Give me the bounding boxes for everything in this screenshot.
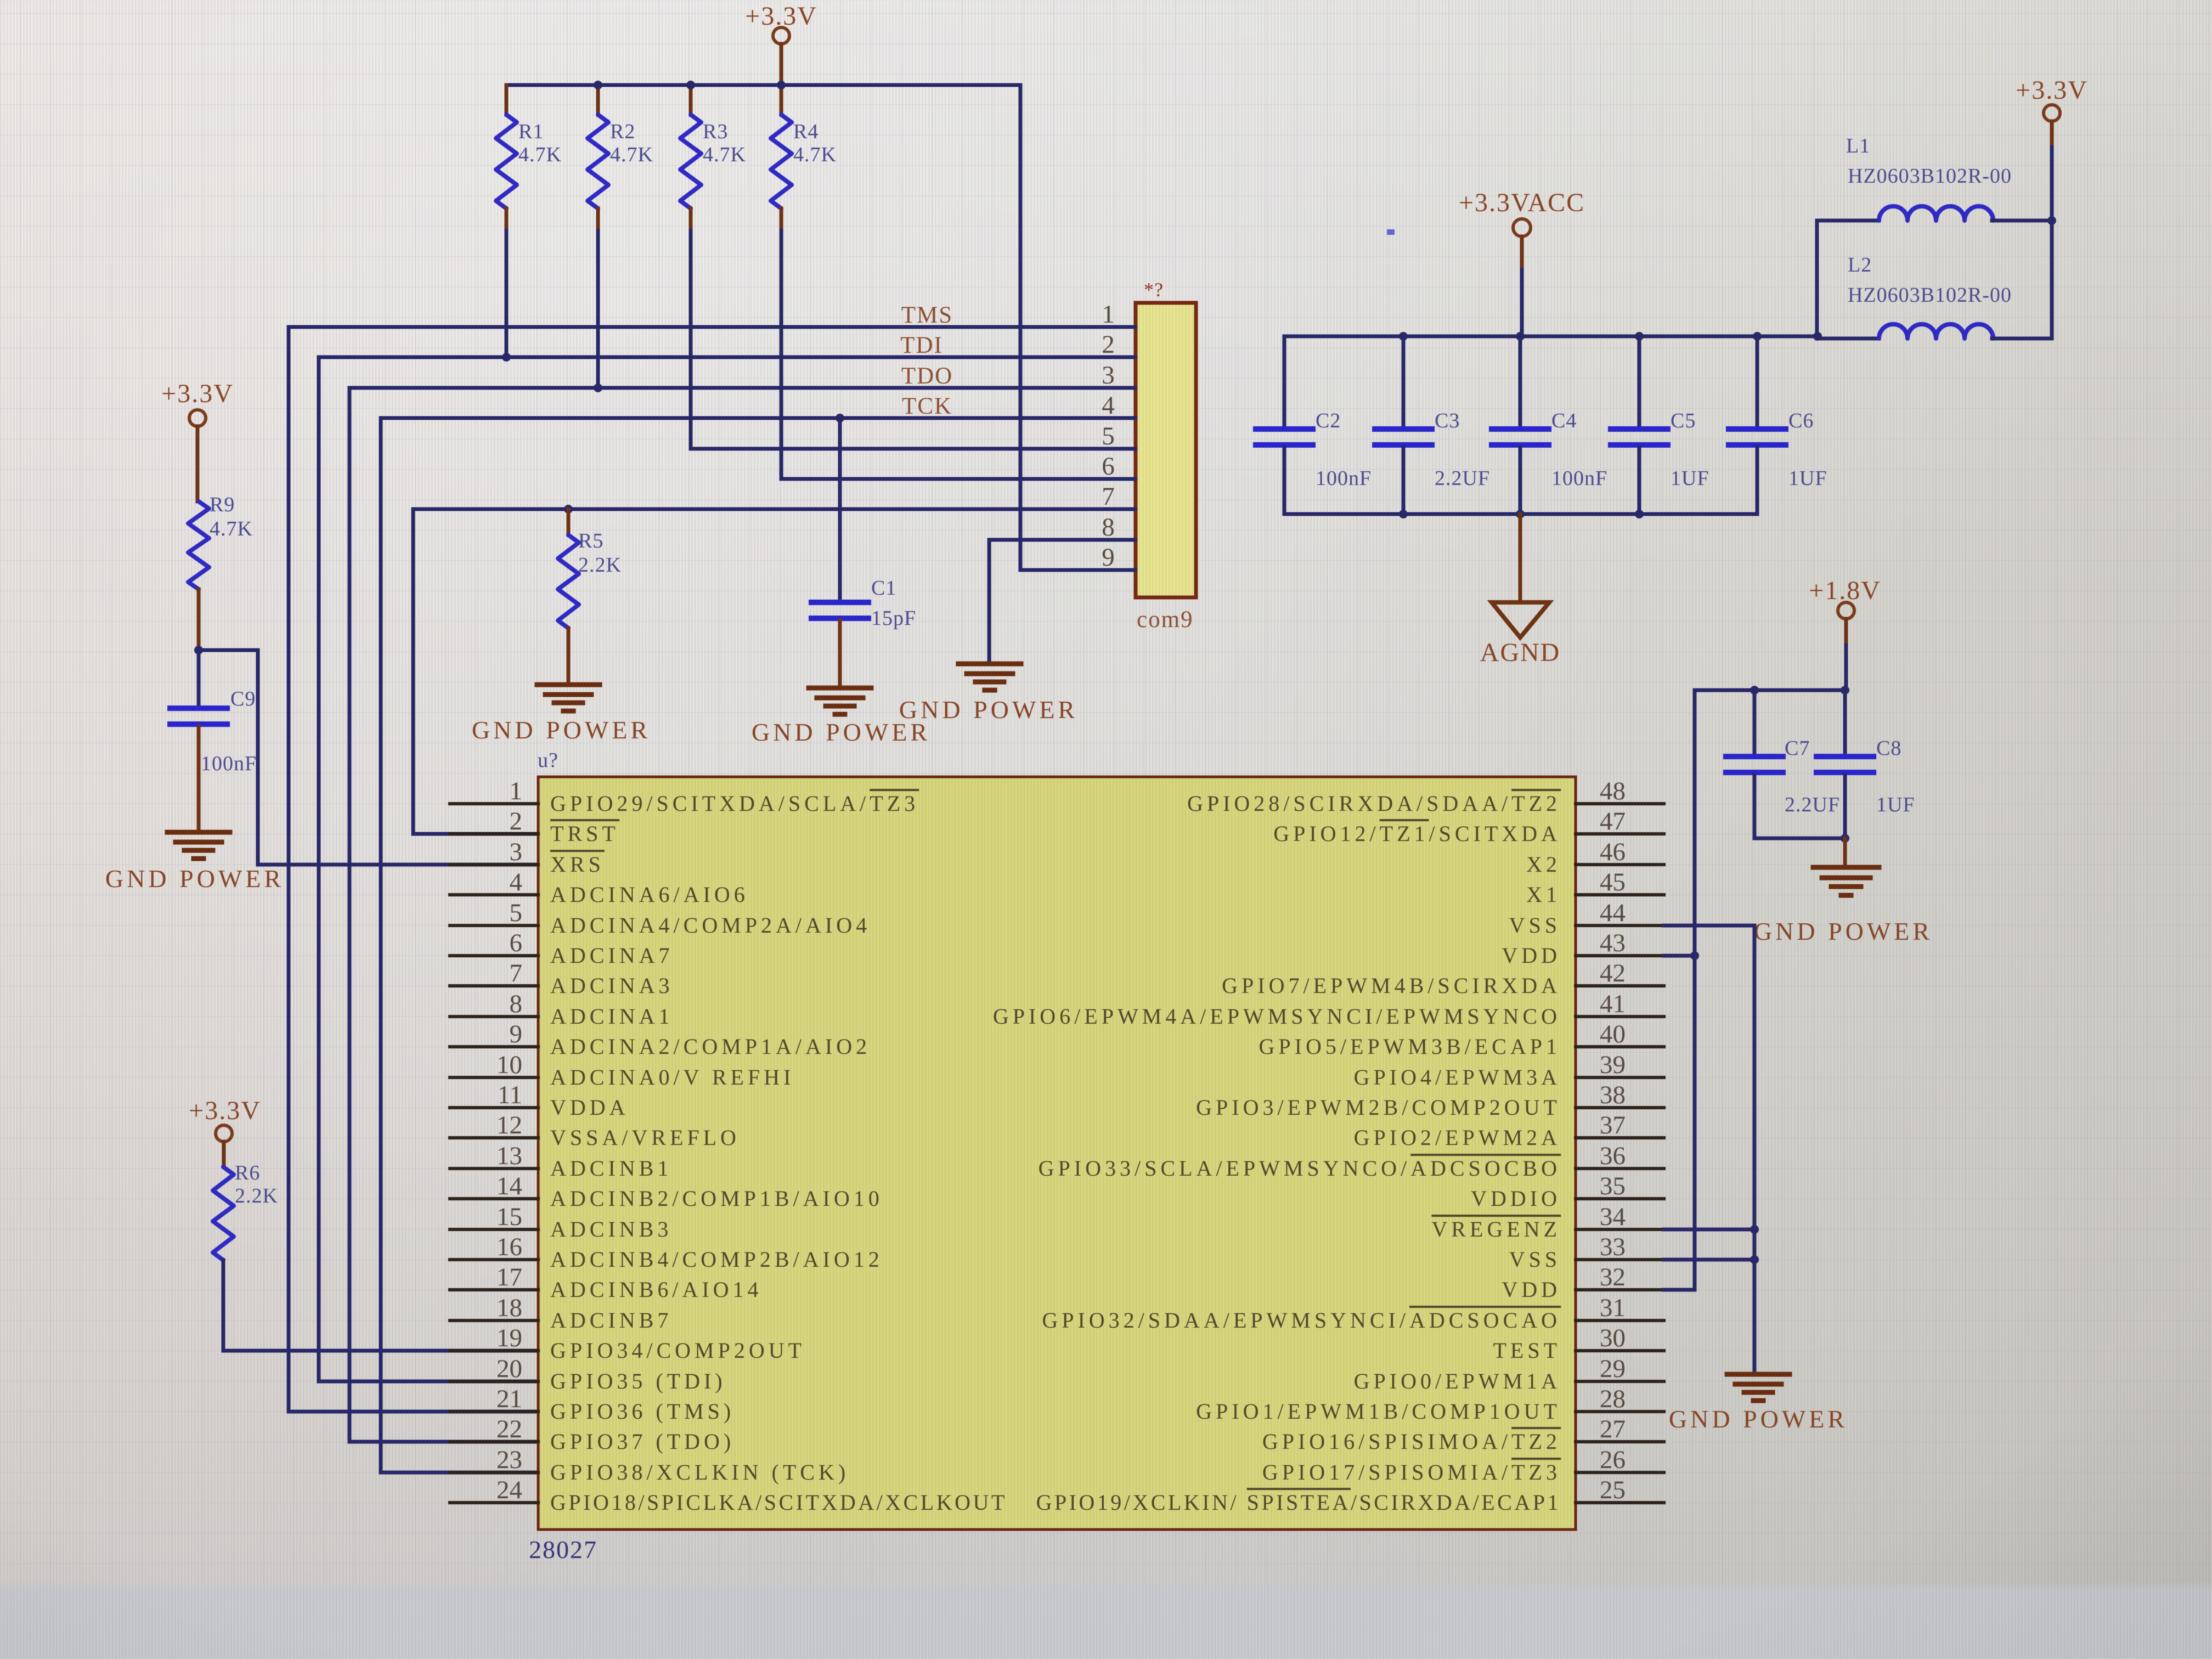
- wire TDO vertical to IC pin 22: [349, 388, 538, 1442]
- wire R3 to com9 row: [689, 230, 693, 449]
- IC pin 1: [450, 777, 919, 816]
- wire R4 to com9 row: [780, 230, 783, 479]
- label GND POWER (below C1): [752, 718, 930, 746]
- com9 pin 1 wire: [289, 300, 1136, 329]
- resistor R3 4.7K: [680, 85, 746, 230]
- IC pin 28: [1196, 1385, 1664, 1424]
- net label TCK: [902, 393, 952, 419]
- IC pin 14: [450, 1172, 883, 1211]
- power port +3.3V (XRS pull-up): [161, 379, 234, 501]
- capacitor C6 1UF: [1729, 336, 1827, 514]
- IC pin 44: [1509, 899, 1664, 938]
- junction dot R1/TDI: [502, 353, 511, 362]
- label GND POWER (VSS rail): [1669, 1405, 1848, 1433]
- IC pin 38: [1196, 1081, 1664, 1120]
- resistor R2 4.7K: [588, 85, 653, 230]
- IC pin 17: [450, 1263, 763, 1302]
- com9 pin 6 wire: [781, 452, 1136, 481]
- power port +3.3V (JTAG pull-up bus): [745, 2, 817, 85]
- IC pin 26: [1262, 1446, 1664, 1485]
- IC pin 41: [993, 990, 1664, 1029]
- IC pin 11: [450, 1081, 629, 1120]
- ground below C7/C8: [1813, 867, 1879, 895]
- IC pin 31: [1042, 1294, 1664, 1333]
- wire L pair right vertical: [2047, 216, 2056, 338]
- IC pin 10: [450, 1051, 794, 1090]
- IC pin 46: [1526, 838, 1664, 877]
- IC pin 9: [450, 1020, 871, 1059]
- IC pin 43: [1502, 929, 1664, 968]
- wire XRS branch: [194, 646, 538, 865]
- AGND symbol: [1480, 602, 1561, 667]
- IC pin 30: [1493, 1324, 1664, 1363]
- IC pin 35: [1471, 1172, 1664, 1211]
- IC pin 12: [450, 1111, 740, 1150]
- IC pin 25: [1036, 1476, 1664, 1515]
- IC pin 27: [1262, 1415, 1664, 1454]
- label GND POWER (below R5): [472, 716, 651, 744]
- resistor R5 2.2K: [558, 505, 622, 685]
- ground below C9: [167, 832, 230, 859]
- power port +3.3V (right): [2016, 76, 2088, 221]
- wire +3.3V drop to com9 pin 9: [1019, 85, 1023, 570]
- wire L pair left vertical: [1815, 221, 1819, 338]
- IC pin 21: [450, 1385, 735, 1424]
- ground below com9 pin 8: [958, 664, 1021, 690]
- com9 pin 5 wire: [691, 422, 1136, 450]
- wire TRST to IC pin 2: [413, 509, 538, 834]
- capacitor C3 2.2UF: [1375, 336, 1490, 514]
- power port +3.3V (R6): [189, 1096, 261, 1167]
- resistor R6 2.2K: [213, 1161, 278, 1260]
- IC pin 39: [1354, 1051, 1664, 1090]
- wire VSS rail (pin 44 / 34 / 33 to ground): [1664, 926, 1759, 1374]
- wire com9 pin 8 to ground: [988, 540, 991, 664]
- wire C7/C8 bottom bus: [1754, 834, 1849, 843]
- power port +3.3VACC: [1459, 188, 1585, 336]
- wire TDI vertical to IC pin 20: [319, 357, 538, 1381]
- IC pin 48: [1187, 777, 1664, 816]
- capacitor C1 15pF: [811, 414, 916, 688]
- capacitor C2 100nF: [1256, 336, 1372, 514]
- IC pin 24: [450, 1476, 1007, 1515]
- resistor R1 4.7K: [496, 85, 562, 230]
- junction dot R2/TDO: [594, 383, 602, 392]
- capacitor C7 2.2UF: [1726, 690, 1840, 838]
- IC pin 2: [450, 807, 619, 846]
- label GND POWER (below C9): [105, 865, 284, 893]
- com9 pin 3 wire: [349, 361, 1136, 390]
- IC pin 45: [1526, 868, 1664, 907]
- IC pin 32: [1502, 1263, 1664, 1302]
- inductor L1 HZ0603B102R-00: [1817, 134, 2052, 221]
- IC pin 22: [450, 1415, 735, 1454]
- net label TDI: [900, 332, 943, 358]
- junction dots on +3.3V bus: [594, 81, 786, 89]
- IC pin 40: [1259, 1020, 1664, 1059]
- com9 pin 4 wire: [381, 391, 1136, 420]
- net label TMS: [901, 302, 953, 328]
- IC pin 18: [450, 1294, 672, 1333]
- connector com9 (JTAG header): [1136, 279, 1196, 633]
- capacitor C5 1UF: [1611, 336, 1709, 514]
- inductor L2 HZ0603B102R-00: [1817, 253, 2052, 338]
- wire R2 to com9 row: [596, 230, 600, 388]
- wire ground stem below C8: [1843, 838, 1847, 867]
- wire +3.3V top bus: [506, 83, 1020, 87]
- com9 pin 2 wire: [319, 330, 1136, 359]
- IC pin 13: [450, 1142, 672, 1181]
- wire TMS vertical to IC pin 21: [289, 327, 538, 1412]
- IC pin 4: [450, 868, 749, 907]
- capacitor C4 100nF: [1492, 336, 1607, 514]
- IC pin 19: [450, 1324, 805, 1363]
- com9 pin 8 wire: [989, 513, 1136, 541]
- IC pin 5: [450, 899, 871, 938]
- capacitor C9 100nF: [170, 650, 257, 832]
- IC pin 6: [450, 929, 674, 968]
- wire cap bank bottom bus: [1284, 510, 1757, 518]
- wire C7/C8 top bus: [1695, 686, 1849, 695]
- wire AGND stem: [1519, 514, 1522, 602]
- bottom gray band (screen edge): [0, 1582, 2212, 1659]
- IC pin 37: [1354, 1111, 1664, 1150]
- IC pin 42: [1222, 959, 1664, 998]
- IC pin 29: [1354, 1355, 1664, 1393]
- IC pin 20: [450, 1355, 726, 1393]
- IC U? 28027 body: [529, 749, 1576, 1564]
- wire VDD rail (pin 43 / pin 32 to +1.8V): [1664, 690, 1699, 1290]
- label GND POWER (below C7/C8): [1754, 917, 1933, 945]
- wire R6 to IC pin 19: [223, 1260, 538, 1351]
- IC pin 34: [1431, 1203, 1664, 1242]
- resistor R4 4.7K: [771, 85, 837, 230]
- wire +3.3VACC top bus: [1284, 332, 1822, 341]
- power port +1.8V: [1809, 576, 1881, 690]
- IC pin 15: [450, 1203, 672, 1242]
- com9 pin 9 wire: [1020, 543, 1136, 572]
- label GND POWER (below com9): [899, 696, 1078, 724]
- IC pin 7: [450, 959, 674, 998]
- ground below R5: [537, 685, 600, 711]
- ground below C1: [809, 688, 871, 714]
- net label TDO: [901, 363, 953, 389]
- wire TCK vertical to IC pin 23: [381, 418, 538, 1472]
- IC pin 36: [1039, 1142, 1664, 1181]
- resistor R9 4.7K: [188, 493, 253, 650]
- IC pin 16: [450, 1233, 883, 1272]
- IC pin 47: [1273, 807, 1664, 846]
- stray blue mark (screen artifact): [1387, 229, 1395, 235]
- IC pin 3: [450, 838, 605, 877]
- IC pin 8: [450, 990, 674, 1029]
- capacitor C8 1UF: [1816, 690, 1915, 838]
- IC pin 23: [450, 1446, 849, 1485]
- wire R1 to com9 row: [505, 230, 509, 357]
- IC pin 33: [1509, 1233, 1664, 1272]
- com9 pin 7 wire: [413, 482, 1136, 511]
- ground below VSS rail: [1727, 1374, 1790, 1401]
